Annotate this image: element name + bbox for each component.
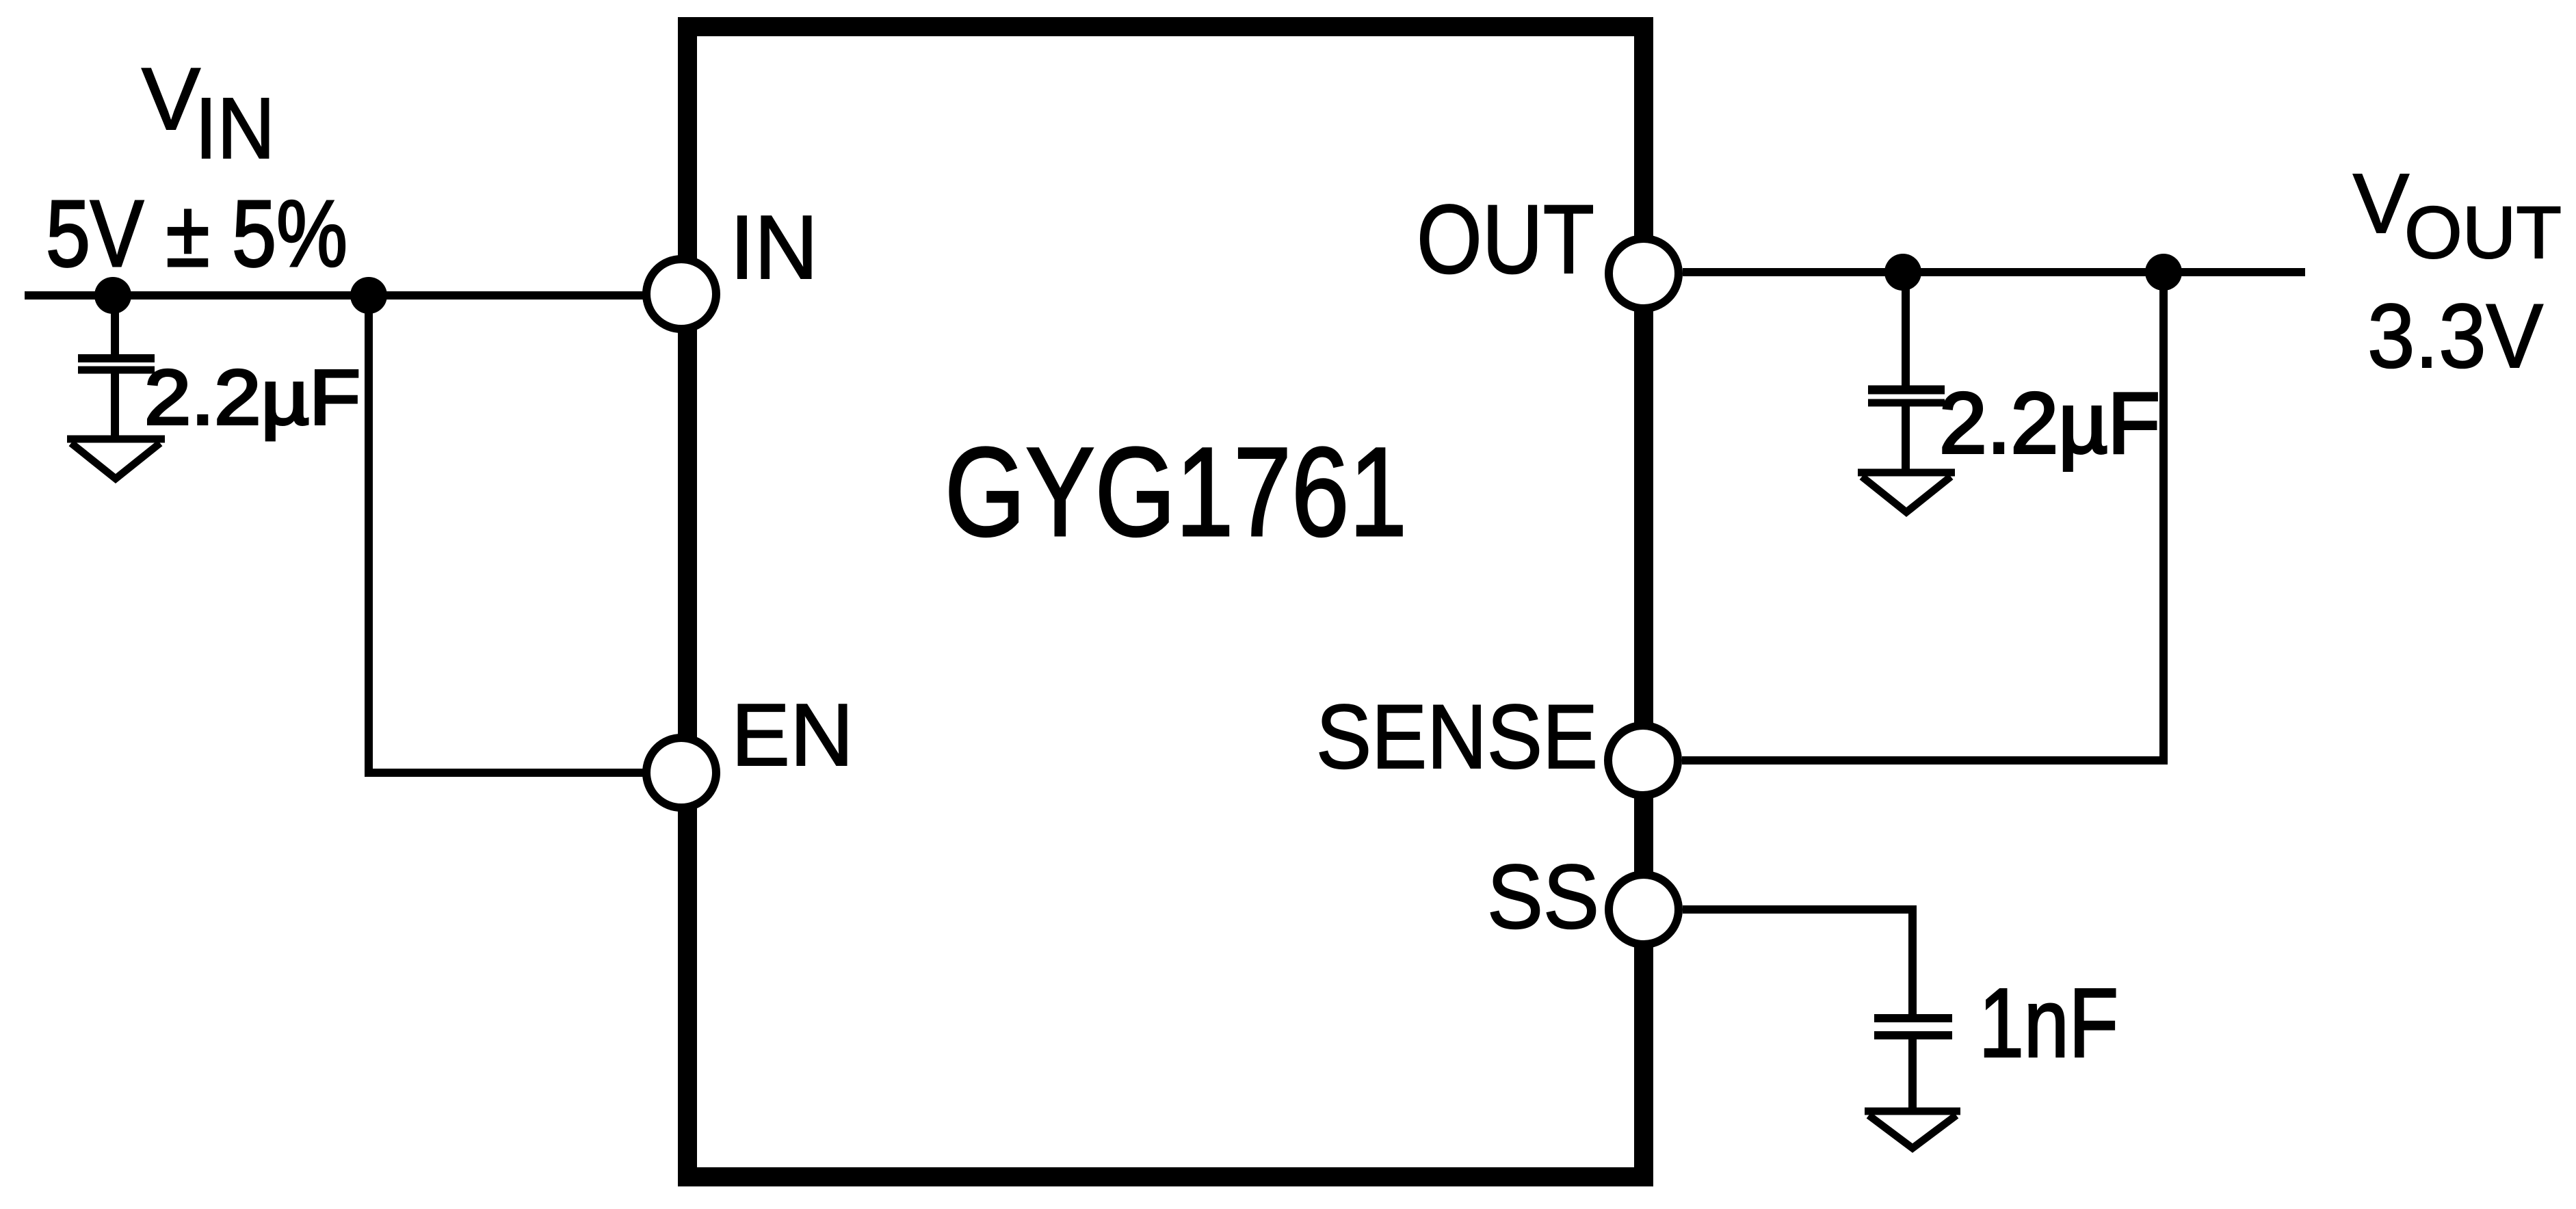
capacitor C1 stem bottom [111, 370, 119, 439]
IC U1 GYG1761 body [687, 27, 1644, 1177]
wire VIN input rail [25, 291, 644, 300]
svg-text:IN: IN [195, 80, 275, 176]
node junction VIN/EN [350, 277, 387, 314]
svg-text:2.2µF: 2.2µF [1939, 375, 2160, 471]
capacitor C1 plates [78, 358, 155, 370]
svg-text:3.3V: 3.3V [2367, 286, 2543, 387]
pin IN circle [646, 259, 716, 329]
svg-text:OUT: OUT [1417, 185, 1594, 294]
pin SENSE circle [1608, 726, 1678, 795]
svg-text:V: V [2353, 157, 2409, 251]
svg-text:1nF: 1nF [1979, 969, 2118, 1078]
svg-text:V: V [142, 50, 200, 148]
svg-text:EN: EN [731, 686, 854, 784]
capacitor C1 2.2uF input : stem top [111, 295, 119, 354]
node junction VIN/C1 [94, 277, 131, 314]
wire VOUT output rail [1683, 268, 2305, 276]
capacitor C2 stem bottom [1902, 403, 1910, 473]
pin EN circle [646, 738, 716, 808]
capacitor C2 2.2uF output : stem top [1902, 272, 1910, 386]
capacitor C3 stem bottom [1908, 1035, 1917, 1111]
pin OUT circle [1609, 239, 1679, 308]
svg-text:SS: SS [1487, 847, 1599, 948]
node junction VOUT/C2 [1884, 254, 1921, 291]
svg-text:2.2µF: 2.2µF [144, 354, 360, 440]
svg-text:GYG1761: GYG1761 [945, 422, 1407, 563]
node junction VOUT/SENSE [2145, 254, 2182, 291]
wire SS to C3 [1683, 909, 1913, 1014]
svg-text:IN: IN [730, 197, 818, 297]
pin SS circle [1609, 875, 1679, 944]
wire EN branch from VIN [369, 295, 644, 773]
wire SENSE feedback [1682, 272, 2164, 760]
capacitor C2 plates [1868, 390, 1945, 403]
ground GND3 (SS cap) [1865, 1111, 1960, 1148]
svg-text:OUT: OUT [2404, 191, 2562, 274]
ground GND2 (output cap) [1858, 473, 1955, 512]
capacitor C3 1nF : plates [1874, 1018, 1952, 1035]
ground GND1 (input cap) [67, 439, 165, 479]
svg-text:SENSE: SENSE [1316, 687, 1598, 788]
svg-text:5V ± 5%: 5V ± 5% [46, 181, 347, 287]
